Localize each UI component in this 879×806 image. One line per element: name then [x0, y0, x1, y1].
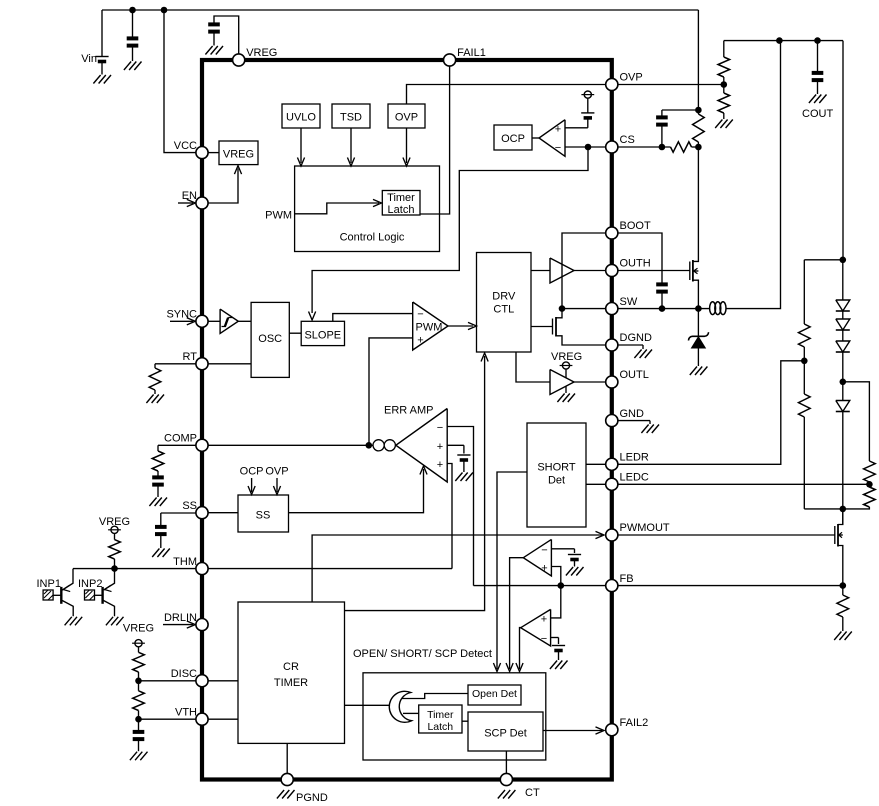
wire RT to OSC — [208, 363, 251, 365]
resistor CS series — [618, 142, 699, 152]
wire err amp clamp plus to THM — [447, 464, 452, 569]
svg-text:−: − — [437, 422, 443, 434]
node OVP tap — [721, 81, 728, 88]
pin CS — [606, 134, 635, 153]
svg-text:OVP: OVP — [265, 466, 288, 478]
node SW internal — [559, 305, 566, 312]
transistor Q2 PWM dimming NMOS — [835, 509, 843, 586]
pin BOOT — [606, 220, 651, 239]
node LED string bottom — [840, 506, 847, 513]
node rail-VCC junction — [161, 7, 168, 14]
wire OCP comparator output — [532, 137, 539, 139]
svg-text:RT: RT — [183, 351, 198, 363]
pin THM — [173, 556, 208, 575]
ground INP1 — [65, 617, 83, 626]
ground PGND — [277, 790, 295, 799]
transistor Q3 internal sense FET — [531, 309, 606, 345]
wire driver input high — [531, 270, 550, 272]
wire FAIL1 to timer latch — [420, 66, 450, 214]
node CS filter tap — [659, 144, 666, 151]
pin CT — [500, 773, 512, 785]
block SHORT Det — [527, 423, 586, 527]
svg-text:VREG: VREG — [123, 623, 154, 635]
pin SYNC — [166, 309, 208, 328]
svg-text:INP1: INP1 — [37, 578, 61, 590]
wire CR timer to OR gate — [345, 704, 392, 706]
pin DGND — [606, 332, 652, 351]
capacitor COMP — [152, 471, 164, 497]
VREG bubble OCP reference — [581, 91, 594, 98]
block Timer Latch U4 — [382, 191, 420, 216]
wire OSC to SLOPE — [289, 332, 301, 334]
pin VREG — [233, 47, 278, 66]
node LEDR tap — [801, 358, 808, 365]
VREG bubble OUTL driver — [551, 351, 582, 378]
svg-text:VCC: VCC — [174, 140, 197, 152]
LED D2 — [836, 260, 850, 311]
svg-text:CR: CR — [283, 661, 299, 673]
svg-text:SLOPE: SLOPE — [304, 329, 341, 341]
pin FAIL1 — [444, 47, 486, 66]
svg-text:COMP: COMP — [164, 433, 197, 445]
svg-text:VREG: VREG — [246, 47, 277, 59]
resistor LEDC divider upper — [843, 382, 875, 485]
node rail-Cin junction — [129, 7, 136, 14]
pin RT — [183, 351, 209, 370]
svg-text:PGND: PGND — [296, 792, 328, 804]
svg-text:CTL: CTL — [493, 303, 514, 315]
IC boundary — [202, 60, 612, 780]
pin PWMOUT — [606, 522, 670, 541]
LED D4 — [836, 330, 850, 382]
wire THM line — [73, 568, 452, 570]
wire PWM comparator to DRV CTL — [448, 325, 473, 327]
wire DISC line — [139, 680, 196, 682]
op-amp U2 high side driver — [550, 258, 574, 283]
wire DISC to CR timer — [208, 680, 238, 682]
pin VCC — [174, 140, 208, 159]
op-amp U3 low side driver — [550, 370, 574, 395]
pin FAIL2 — [606, 717, 649, 736]
wire VCC supply drop — [164, 10, 196, 153]
svg-text:+: + — [555, 123, 561, 135]
DRLIN input arrow — [163, 624, 193, 626]
resistor RT external — [149, 364, 196, 394]
wire OUTH gate line — [618, 270, 690, 272]
wire DGND stub — [618, 344, 643, 346]
svg-text:OPEN/ SHORT/ SCP Detect: OPEN/ SHORT/ SCP Detect — [353, 648, 492, 660]
wire COMP network — [158, 445, 196, 451]
wire U9 plus to FB — [551, 567, 560, 586]
EN input arrow — [178, 202, 193, 204]
wire SHORT det to detect block — [497, 472, 527, 669]
wire BOOT to bootstrap cap — [618, 233, 662, 284]
wire output rail — [724, 40, 843, 42]
svg-text:VREG: VREG — [551, 351, 582, 363]
LED D3 — [836, 311, 850, 330]
wire OVP pin line — [618, 84, 724, 86]
pin DRLIN — [164, 612, 208, 631]
svg-text:OVP: OVP — [395, 112, 418, 124]
ground GND pin — [649, 421, 651, 424]
wire timer latch to SCP det — [462, 720, 468, 722]
node CS branch — [585, 144, 592, 151]
svg-text:INP2: INP2 — [78, 578, 102, 590]
capacitor input bypass — [127, 10, 139, 61]
input terminal INP1 — [43, 590, 53, 600]
svg-text:PWM: PWM — [265, 209, 292, 221]
wire LEDR line — [618, 361, 805, 465]
wire TSD to control logic — [350, 128, 352, 163]
battery err amp reference — [457, 455, 470, 472]
block SLOPE — [301, 321, 344, 345]
inductor L1 — [710, 302, 726, 315]
svg-text:OUTH: OUTH — [620, 258, 651, 270]
svg-text:PWMOUT: PWMOUT — [620, 522, 670, 534]
svg-text:+: + — [541, 614, 547, 626]
wire LED top to resistor chain — [804, 259, 843, 261]
ground INP2 — [106, 617, 124, 626]
svg-text:FAIL2: FAIL2 — [620, 717, 649, 729]
svg-text:PWM: PWM — [416, 322, 443, 334]
wire SHORT det to LEDR — [586, 463, 606, 465]
node FB comparator tap — [558, 582, 565, 589]
ground Vin — [93, 75, 111, 84]
wire SS pin to block — [208, 512, 238, 514]
svg-text:LEDR: LEDR — [620, 452, 649, 464]
ground VTH — [130, 752, 148, 761]
VREG bubble THM pullup — [108, 526, 121, 533]
svg-text:CS: CS — [620, 134, 635, 146]
svg-text:DRV: DRV — [492, 291, 516, 303]
resistor ballast lower — [799, 361, 843, 509]
svg-text:−: − — [541, 544, 547, 556]
ground U10 reference — [550, 661, 568, 670]
pin LEDR — [606, 452, 649, 471]
wire OVP block to OVP pin — [407, 85, 606, 105]
VREG bubble DISC pullup — [132, 640, 145, 647]
block OSC — [251, 302, 289, 377]
svg-text:−: − — [555, 142, 561, 154]
svg-text:LEDC: LEDC — [620, 472, 649, 484]
node DISC junction — [135, 678, 142, 685]
wire SW internal — [562, 308, 606, 310]
wire SYNC to buffer — [208, 320, 220, 322]
wire U10 plus to FB — [551, 586, 561, 618]
svg-text:Timer: Timer — [387, 192, 415, 204]
resistor COMP — [152, 451, 164, 471]
wire OR to timer latch 2 — [403, 712, 419, 714]
wire SS clamp to err amp — [289, 469, 424, 513]
node FB sense — [840, 582, 847, 589]
node VTH junction — [135, 716, 142, 723]
block VREG regulator — [219, 141, 258, 165]
block TSD — [332, 104, 370, 128]
wire OUTL output — [574, 381, 606, 383]
diode D1 schottky catch — [688, 309, 708, 366]
resistor ballast upper — [799, 260, 811, 361]
ground COUT — [809, 95, 827, 104]
wire SW line with pin — [618, 308, 710, 310]
block Timer Latch U12 — [419, 705, 462, 733]
block OVP — [388, 104, 425, 128]
wire COMP to err amp — [196, 444, 373, 446]
wire PWM plus from err amp — [369, 338, 413, 445]
svg-text:Control Logic: Control Logic — [340, 232, 405, 244]
pin VTH — [175, 706, 208, 725]
svg-text:VTH: VTH — [175, 706, 197, 718]
ground err amp reference — [455, 473, 473, 482]
capacitor bootstrap — [656, 284, 668, 308]
capacitor COUT — [812, 41, 824, 94]
node LED4 anode — [840, 379, 847, 386]
svg-text:OCP: OCP — [240, 466, 264, 478]
wire U10 output to detect — [520, 628, 521, 669]
svg-text:−: − — [417, 308, 423, 320]
block DRV CTL — [477, 253, 532, 353]
ground VREG bypass — [205, 46, 223, 55]
svg-text:UVLO: UVLO — [286, 112, 316, 124]
wire PWMOUT from CR timer — [312, 535, 602, 602]
wire VTH to CR timer — [208, 718, 238, 720]
wire Vin top rail — [102, 9, 698, 11]
svg-text:OSC: OSC — [258, 333, 282, 345]
block UVLO — [282, 104, 320, 128]
resistor LEDC divider lower — [843, 484, 875, 509]
wire PWMOUT gate line — [618, 534, 835, 536]
svg-text:Open Det: Open Det — [472, 688, 517, 700]
resistor OVP divider lower — [718, 85, 730, 120]
resistor DISC-VTH — [133, 681, 145, 719]
pin OVP — [606, 72, 643, 91]
ground DGND — [642, 345, 644, 349]
wire GND stub — [618, 420, 650, 422]
pin GND — [606, 408, 644, 427]
node LEDC tap — [866, 481, 873, 488]
svg-text:EN: EN — [182, 190, 197, 202]
svg-text:TIMER: TIMER — [274, 677, 308, 689]
resistor THM pullup — [109, 533, 121, 568]
battery U10 reference — [552, 646, 565, 661]
wire SCP det to FAIL2 — [543, 730, 602, 732]
LED D5 — [836, 382, 850, 509]
node LED string top — [840, 257, 847, 264]
transistor Q5 INP2 PNP — [95, 569, 115, 617]
op-amp U10 FB lower comparator — [521, 609, 551, 646]
svg-text:COUT: COUT — [802, 108, 833, 120]
wire BOOT internal — [562, 233, 606, 309]
svg-text:SS: SS — [256, 510, 271, 522]
wire OCP plus reference — [565, 118, 588, 128]
current source err amp output — [373, 440, 395, 451]
ground CT — [498, 790, 516, 799]
pin OUTL — [606, 369, 649, 388]
battery U9 reference — [568, 555, 581, 567]
wire slope to PWM minus — [333, 314, 413, 322]
wire U10 minus reference — [551, 638, 559, 645]
capacitor SS external — [155, 513, 196, 548]
wire Vin rail drop to sense resistor — [697, 10, 699, 110]
op-amp U8 error amplifier — [384, 405, 447, 483]
svg-text:FB: FB — [620, 573, 634, 585]
op-amp U7 PWM comparator — [413, 302, 448, 350]
svg-text:TSD: TSD — [340, 112, 362, 124]
pin LEDC — [606, 472, 649, 491]
svg-text:SS: SS — [182, 500, 197, 512]
svg-text:+: + — [437, 441, 443, 453]
node THM pullup junction — [111, 565, 118, 572]
wire inductor to output rail — [726, 41, 781, 309]
node bootstrap cap - SW — [659, 305, 666, 312]
svg-text:+: + — [437, 459, 443, 471]
wire OVP to SS block — [276, 478, 278, 492]
svg-text:ERR AMP: ERR AMP — [384, 405, 434, 417]
block Control Logic — [295, 166, 440, 252]
block SS softstart — [238, 495, 289, 532]
input terminal INP2 — [85, 590, 95, 600]
node output rail - inductor — [776, 37, 783, 44]
svg-text:OCP: OCP — [501, 133, 525, 145]
transistor Q4 INP1 PNP — [53, 569, 73, 617]
resistor FB sense — [837, 586, 849, 631]
svg-text:OVP: OVP — [620, 72, 643, 84]
ground RT — [146, 395, 164, 404]
ground OVP divider — [715, 120, 733, 129]
pin PGND — [281, 773, 293, 785]
ground OUTL driver — [565, 387, 567, 394]
resistor OVP divider upper — [718, 41, 730, 85]
wire OUTH output — [574, 270, 606, 272]
svg-text:Latch: Latch — [427, 721, 453, 733]
SYNC input arrow — [170, 320, 193, 322]
svg-text:Timer: Timer — [427, 709, 454, 721]
capacitor VREG bypass — [208, 16, 239, 54]
block SCP Det — [468, 712, 543, 751]
svg-text:DRLIN: DRLIN — [164, 612, 197, 624]
node output rail - COUT — [814, 37, 821, 44]
node sense-resistor bottom / CS net — [695, 144, 702, 151]
svg-text:SHORT: SHORT — [537, 462, 576, 474]
wire EN to VREG block — [208, 169, 238, 204]
svg-text:−: − — [541, 633, 547, 645]
wire VTH line — [139, 718, 196, 720]
svg-text:BOOT: BOOT — [620, 220, 651, 232]
svg-text:SYNC: SYNC — [166, 309, 197, 321]
wire U9 minus reference — [551, 549, 574, 553]
op-amp U9 FB upper comparator — [523, 539, 551, 576]
wire err amp ref plus — [447, 445, 464, 453]
wire CR timer to PGND pin — [286, 743, 288, 773]
ground COMP — [149, 498, 167, 507]
block OPEN SHORT SCP detect — [363, 673, 546, 760]
ground SS — [152, 549, 170, 558]
node COMP-errамp output — [366, 442, 373, 449]
op-amp U6 sync buffer — [220, 309, 238, 333]
ground D1 — [690, 367, 708, 376]
svg-text:+: + — [417, 335, 423, 347]
wire buffer to OSC — [238, 320, 251, 322]
pin FB — [606, 573, 634, 592]
svg-text:VREG: VREG — [223, 149, 254, 161]
node sense-resistor top — [695, 107, 702, 114]
wire OR to Open Det — [402, 694, 468, 699]
wire LEDC line — [618, 483, 870, 485]
battery Vin source — [95, 10, 108, 75]
block CR TIMER — [238, 602, 345, 743]
wire err amp minus to FB — [447, 427, 473, 586]
wire OVP to control logic — [406, 128, 408, 163]
wire U9 output to detect — [510, 558, 524, 669]
svg-text:THM: THM — [173, 556, 197, 568]
battery OCP reference — [581, 98, 594, 118]
svg-text:FAIL1: FAIL1 — [457, 47, 486, 59]
svg-text:SCP Det: SCP Det — [484, 728, 527, 740]
capacitor CS filter — [656, 110, 698, 147]
op-amp U5 OCP comparator — [539, 120, 565, 157]
svg-text:DISC: DISC — [171, 668, 197, 680]
svg-text:CT: CT — [525, 787, 540, 799]
OR gate U11 — [389, 691, 411, 722]
svg-text:Latch: Latch — [388, 204, 415, 216]
svg-text:DGND: DGND — [620, 332, 652, 344]
svg-text:OUTL: OUTL — [620, 369, 649, 381]
wire OCP to SS block — [251, 478, 253, 492]
wire CS to OCP comparator — [565, 146, 606, 148]
wire FB internal — [474, 585, 606, 587]
wire UVLO to control logic — [300, 128, 302, 163]
svg-text:SW: SW — [620, 296, 638, 308]
wire CS to slope comp input — [312, 147, 588, 313]
block Open Det — [468, 685, 521, 705]
ground FB sense — [834, 632, 852, 641]
svg-text:Det: Det — [548, 475, 565, 487]
pin SW — [606, 296, 638, 315]
capacitor VTH — [133, 719, 145, 751]
wire PWM to timer latch — [295, 203, 379, 214]
wire CR timer to DRV CTL — [345, 356, 485, 611]
transistor Q1 power NMOS — [690, 147, 699, 309]
resistor current sense RCS — [693, 110, 705, 147]
wire SCP det to CT pin — [505, 751, 507, 774]
wire FB line external — [618, 585, 843, 587]
wire driver input low — [516, 352, 550, 382]
ground U9 reference — [566, 567, 584, 576]
pin COMP — [164, 433, 208, 452]
svg-text:GND: GND — [620, 408, 645, 420]
pin EN — [182, 190, 208, 209]
svg-text:+: + — [541, 562, 547, 574]
wire output rail to LED string — [842, 41, 844, 260]
svg-text:Vin: Vin — [81, 53, 97, 65]
node Q1 source - SW — [695, 305, 702, 312]
pin SS — [182, 500, 208, 519]
wire VCC to VREG block — [208, 152, 219, 154]
block OCP — [494, 125, 532, 150]
ground input bypass — [124, 62, 142, 71]
resistor DISC pullup — [133, 647, 145, 681]
pin OUTH — [606, 258, 651, 277]
pin DISC — [171, 668, 208, 687]
wire SHORT det to LEDC — [586, 483, 606, 485]
